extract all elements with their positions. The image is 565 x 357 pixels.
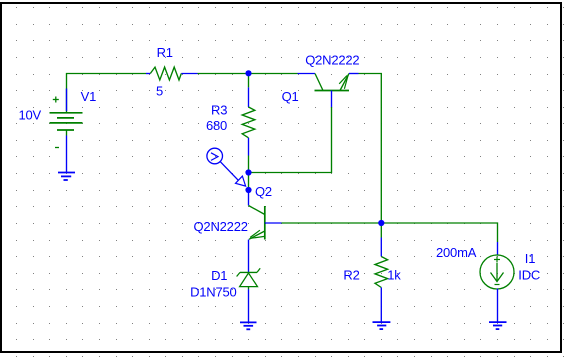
svg-text:Q2N2222: Q2N2222 <box>305 53 359 68</box>
R2 bottom pin wire <box>380 288 382 323</box>
R3 top pin <box>248 87 250 107</box>
I1 value 200mA <box>436 245 477 260</box>
transistor Q1 <box>298 74 359 108</box>
svg-text:D1N750: D1N750 <box>190 285 237 300</box>
junction node B <box>245 187 251 193</box>
ground at D1 <box>240 322 257 329</box>
zener diode D1 <box>237 268 261 289</box>
wire Q2 base to right rail node <box>282 222 382 224</box>
junction node A <box>245 169 251 175</box>
label Q2N2222 for Q1 <box>305 53 359 68</box>
Q2 emitter pin and D1 top pin <box>248 240 250 273</box>
current source I1 <box>480 255 514 289</box>
svg-text:D1: D1 <box>211 268 227 283</box>
Q2 collector pin <box>248 190 250 206</box>
wire node to I1 <box>381 223 497 242</box>
svg-text:200mA: 200mA <box>436 245 477 260</box>
wire V1 to R1 <box>67 74 147 114</box>
junction node R1/R3 <box>245 70 251 76</box>
wire node A to node B <box>248 173 250 191</box>
wire Q1 base to node A <box>249 107 332 173</box>
D1 bottom pin wire <box>248 289 250 322</box>
I1 value IDC <box>518 268 540 283</box>
voltage source V1 <box>50 97 83 148</box>
V1 positive pin <box>66 89 68 112</box>
svg-text:IDC: IDC <box>518 268 540 283</box>
R3 bottom pin <box>248 138 250 156</box>
R2 top pin <box>380 238 382 257</box>
I1 bottom pin wire <box>497 289 499 323</box>
resistor R2 <box>375 257 388 288</box>
label V1 <box>81 89 97 104</box>
label 10V <box>19 108 42 123</box>
R3 value 680 <box>206 118 227 133</box>
svg-text:R1: R1 <box>157 45 173 60</box>
svg-text:10V: 10V <box>19 108 42 123</box>
label R2 <box>343 268 359 283</box>
svg-text:1k: 1k <box>387 268 401 283</box>
label R1 <box>157 45 173 60</box>
wire node to R3 <box>248 74 250 88</box>
wire Q1 emitter to right rail <box>359 74 382 224</box>
wire node to R2 <box>380 223 382 238</box>
I1 top pin <box>497 242 499 256</box>
resistor R1 pins <box>146 73 198 75</box>
label R3 <box>211 103 227 118</box>
resistor R1 <box>150 67 181 80</box>
label Q1 <box>282 89 299 104</box>
label Q2 <box>255 184 272 199</box>
svg-text:Q2N2222: Q2N2222 <box>194 219 248 234</box>
svg-text:R3: R3 <box>211 103 227 118</box>
ground at V1 <box>58 173 75 181</box>
wire R1 to Q1 <box>198 73 298 75</box>
label I1 <box>525 251 535 266</box>
D1 value D1N750 <box>190 285 237 300</box>
ground at R2 <box>373 322 391 329</box>
wire R3 to node A <box>248 156 250 173</box>
R2 value 1k <box>387 268 401 283</box>
svg-text:5: 5 <box>156 84 163 99</box>
svg-text:Q2: Q2 <box>255 184 272 199</box>
svg-text:I1: I1 <box>525 251 535 266</box>
R1 value 5 <box>156 84 163 99</box>
current probe marker <box>207 148 246 186</box>
svg-text:V1: V1 <box>81 89 97 104</box>
svg-text:R2: R2 <box>343 268 359 283</box>
resistor R3 <box>242 107 255 138</box>
ground at I1 <box>489 322 507 329</box>
label D1 <box>211 268 227 283</box>
V1 negative pin wire <box>66 136 68 173</box>
svg-text:Q1: Q1 <box>282 89 299 104</box>
svg-text:680: 680 <box>206 118 227 133</box>
label Q2N2222 for Q2 <box>194 219 248 234</box>
transistor Q2 <box>249 206 282 240</box>
junction node right rail <box>378 220 384 226</box>
